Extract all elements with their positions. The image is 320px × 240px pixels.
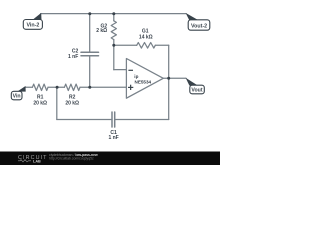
svg-text:NE5534: NE5534 <box>135 79 152 84</box>
svg-text:Vin: Vin <box>13 94 21 100</box>
svg-text:R1: R1 <box>37 94 44 100</box>
svg-text:2 kΩ: 2 kΩ <box>96 28 107 34</box>
svg-text:R2: R2 <box>69 94 76 100</box>
svg-text:1 nF: 1 nF <box>68 54 78 60</box>
svg-text:Vin-2: Vin-2 <box>26 23 39 29</box>
svg-text:http://circuitlab.com/cuq3yq5z: http://circuitlab.com/cuq3yq5z <box>49 157 94 161</box>
svg-text:Vout: Vout <box>191 88 202 94</box>
svg-text:20 kΩ: 20 kΩ <box>65 101 79 107</box>
svg-text:LAB: LAB <box>33 160 41 164</box>
svg-text:14 kΩ: 14 kΩ <box>139 34 153 40</box>
svg-text:Vout-2: Vout-2 <box>191 23 207 29</box>
svg-text:20 kΩ: 20 kΩ <box>33 101 47 107</box>
svg-text:1 nF: 1 nF <box>108 135 118 141</box>
